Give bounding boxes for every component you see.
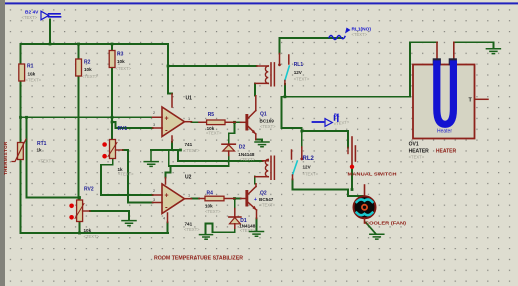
ground heater right [486,49,500,54]
svg-text:741: 741 [185,142,193,147]
wire U1 minus input from R3 node [112,122,153,128]
svg-text:OV1: OV1 [409,142,419,148]
wire RL2 contact top [301,128,303,147]
wire U1 plus input [21,116,153,118]
svg-text:<TEXT>: <TEXT> [206,131,222,136]
svg-text:<TEXT>: <TEXT> [240,157,256,162]
resistor R4 [199,191,235,215]
wire U1 out to R5 [192,121,200,123]
wire U1 Vminus down [171,142,173,150]
wire fan to ground diagonal [366,223,376,235]
RL1(NO) blue squiggle label [329,27,371,40]
svg-text:<TEXT>: <TEXT> [82,74,98,79]
svg-text:10k: 10k [205,204,213,209]
wire to RL2 coil top [178,150,263,161]
wire RL2 coil bottom to Q2 [254,177,256,184]
relay contact RL2 [292,147,319,180]
svg-text:<TEXT>: <TEXT> [116,66,132,71]
svg-text:BC547: BC547 [259,197,274,202]
diode D2 [222,144,256,162]
svg-text:RL1: RL1 [294,62,304,68]
relay coil RL2 [255,156,275,179]
svg-text:R5: R5 [208,112,215,118]
cooler fan [354,185,407,227]
svg-text:<TEXT>: <TEXT> [294,77,310,82]
svg-text:1: 1 [188,194,190,198]
thermistor RT1 [12,139,54,164]
svg-text:<TEXT>: <TEXT> [205,209,221,214]
wire U2 out to R4 [192,198,200,200]
ground G1 (U1 area) [144,150,158,166]
svg-text:<TEXT>: <TEXT> [38,159,54,164]
svg-text:10k: 10k [84,67,92,72]
wire RV2 top link [27,117,80,200]
svg-text:ROOM TEMPERATURE STABILIZER: ROOM TEMPERATURE STABILIZER [154,256,243,262]
wire RL1 coil bottom to Q1 collector [254,83,256,96]
svg-text:3: 3 [153,198,155,202]
wire contact node down [282,97,302,128]
svg-text:+: + [165,116,169,123]
svg-text:<TEXT>: <TEXT> [22,15,38,20]
wire top rail [21,43,169,45]
wire R2 column [78,44,80,200]
wire manual switch branch [302,131,348,148]
top blue border [5,2,518,4]
svg-text:R4: R4 [207,191,214,197]
wire Q1 emitter to ground [256,140,262,142]
svg-text:U2: U2 [185,175,192,181]
svg-text:<TEXT>: <TEXT> [409,155,425,160]
wire rail drop to U1 V+ [168,44,172,94]
resistor R2 [76,59,98,79]
manual switch [348,137,398,178]
resistor R5 [199,112,235,136]
svg-text:RV1: RV1 [118,126,128,132]
svg-text:R1: R1 [27,64,34,70]
wire R4 node down to D1 [234,199,236,209]
wire RV2 wiper to ground [90,211,129,220]
svg-text:-: - [165,203,168,212]
wire left column R1/RT1 [20,44,22,233]
wire R5 node down to D2 [229,122,235,143]
wire R4 to Q2 base [235,198,241,200]
diode D1 [229,209,256,234]
wire rail to RL1 coil [168,65,257,67]
svg-text:741: 741 [185,222,193,227]
svg-text:+: + [254,197,257,203]
svg-text:1: 1 [188,117,190,121]
wire heater right to ground [454,42,494,48]
svg-text:RT1: RT1 [37,141,47,147]
left window strip [0,0,5,286]
transistor Q2 [241,184,276,219]
svg-text:RL2: RL2 [303,156,315,162]
svg-text:Heater: Heater [437,129,452,135]
svg-text:HEATER: HEATER [409,148,430,154]
wire switch bottom [351,169,353,190]
wire RV1 wiper to U2 minus [123,150,153,203]
transistor Q1 [241,96,277,140]
wire bottom rail [21,232,169,234]
ground for RV2 wiper [122,221,136,226]
svg-text:U1: U1 [186,96,193,102]
wire Q2 emitter down [256,219,258,231]
svg-text:-: - [165,126,168,135]
svg-text:<TEXT>: <TEXT> [84,234,100,239]
svg-text:<TEXT>: <TEXT> [118,172,134,177]
svg-text:THERMISTOR: THERMISTOR [3,141,8,175]
wire RL2 contact bottom to fan [293,180,363,197]
pot RV2 [69,187,99,240]
wire second power branch [169,150,229,166]
wire RV1 bottom to U2 plus [101,159,153,195]
wire G1 horizontal [151,149,181,151]
wire D2 anode down [228,155,230,166]
wire R3 column [111,44,113,140]
svg-text:Q2: Q2 [260,191,267,197]
svg-text:1k: 1k [37,148,43,153]
svg-text:10k: 10k [117,59,125,64]
wire heater loop left [282,42,438,97]
svg-text:4: 4 [163,217,165,221]
battery B2 [22,9,61,19]
relay contact RL1 [278,54,310,85]
svg-text:2: 2 [153,189,155,193]
svg-text:<TEXT>: <TEXT> [303,172,319,177]
svg-text:B1: B1 [334,113,340,118]
wire D1 anode down [234,228,236,232]
svg-text:<TEXT>: <TEXT> [352,32,368,37]
svg-text:12V: 12V [303,165,312,170]
svg-text:2: 2 [153,111,155,115]
svg-text:R2: R2 [84,60,91,66]
svg-text:MANUAL SWITCH: MANUAL SWITCH [348,172,398,178]
svg-text:Q1: Q1 [260,112,267,118]
svg-text:<TEXT>: <TEXT> [184,227,200,232]
svg-text:<TEXT>: <TEXT> [184,148,200,153]
pot RV1 [102,126,134,177]
wire R5 to Q1 base [235,121,240,123]
resistor R1 [19,64,42,83]
svg-text:RV2: RV2 [84,187,94,193]
svg-text:COOLER (FAN): COOLER (FAN) [365,221,406,227]
heater OV1 [409,42,488,159]
ground Q2 emitter [250,232,264,237]
wire U2 Vplus feed [166,166,171,178]
ground fan [370,234,384,239]
op-amp U2 [153,175,201,233]
wire RL1 contact bottom [284,84,286,97]
wire RL1 contact top rail [280,37,343,39]
svg-text:<TEXT>: <TEXT> [26,78,42,83]
svg-text:D2: D2 [239,145,246,151]
ground mid-bottom (D1 return) [200,235,213,240]
svg-text:HEATER: HEATER [436,149,457,155]
wire D1 ground step [206,224,235,234]
wire RV2 bottom [79,222,81,234]
ground Q1 emitter [255,142,269,147]
battery B1 decoration near RL2 [313,113,351,127]
svg-text:+: + [165,193,169,200]
svg-text:BC169: BC169 [260,118,275,123]
svg-text:<TEXT>: <TEXT> [260,124,276,129]
svg-text:<TEXT>: <TEXT> [260,202,276,207]
svg-text:10k: 10k [28,72,36,77]
op-amp U1 [153,94,201,153]
svg-text:3: 3 [153,123,155,127]
svg-text:10k: 10k [84,228,92,233]
svg-text:12V: 12V [294,70,303,75]
resistor R3 [109,51,131,72]
wire U2 Vminus to bottom rail [167,223,169,234]
relay coil RL1 [255,63,274,86]
wire battery down [49,20,51,45]
svg-text:R3: R3 [117,52,124,58]
wire RL1 contact top [279,38,281,54]
